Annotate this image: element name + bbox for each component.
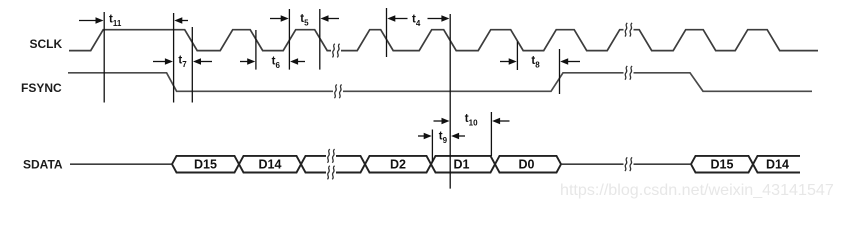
annotation vertical line L12 (t10 right): [490, 112, 492, 156]
t6 arrows: [240, 61, 249, 63]
svg-text:D14: D14: [766, 158, 789, 172]
svg-text:D1: D1: [454, 158, 470, 172]
break on bus top edge: [326, 149, 336, 163]
annotation vertical line L9 (t8 left): [516, 42, 518, 71]
svg-text:t4: t4: [412, 14, 421, 29]
annotation vertical line L6 (t5 right): [319, 9, 321, 70]
svg-text:SCLK: SCLK: [30, 37, 63, 51]
t7 arrows: [153, 61, 167, 63]
svg-text:D14: D14: [259, 158, 282, 172]
t5 arrows: [270, 18, 282, 20]
break on FSYNC low: [333, 85, 343, 99]
wire SDATA lead-in: [70, 163, 172, 165]
svg-text:FSYNC: FSYNC: [21, 81, 62, 95]
svg-text:t5: t5: [300, 13, 309, 28]
svg-text:t8: t8: [531, 55, 540, 70]
t8 arrows: [500, 61, 511, 63]
break on bus bottom edge: [326, 166, 336, 180]
annotation vertical line L5 (t6 right / t5 left): [288, 9, 290, 70]
svg-text:D15: D15: [711, 158, 734, 172]
svg-text:SDATA: SDATA: [23, 157, 63, 171]
t9 arrows: [418, 135, 426, 137]
wire FSYNC waveform: [68, 73, 812, 92]
SDATA bus group 1 (D15 D14 break D2 D1 D0): [172, 156, 561, 173]
break on FSYNC high: [624, 66, 634, 80]
svg-text:D0: D0: [519, 158, 535, 172]
wire SDATA between D0 and second D15: [561, 163, 691, 165]
SDATA bus group 2 (D15 D14 open ended): [691, 156, 800, 173]
t4 double arrow: [387, 15, 395, 21]
annotation vertical line L2 (t11 right / FSYNC fall): [173, 13, 175, 103]
annotation vertical line L1 (t11 left / SCLK rise): [103, 12, 105, 103]
wire SCLK waveform: [69, 30, 818, 51]
annotation vertical line L8 (t4 right, tall through SDATA): [449, 14, 451, 189]
t11 arrows: [79, 20, 97, 22]
svg-text:t10: t10: [465, 113, 478, 128]
svg-text:t11: t11: [109, 14, 122, 29]
svg-text:t9: t9: [439, 131, 448, 146]
annotation vertical line L10 (t8 right / FSYNC rise): [559, 49, 561, 94]
svg-text:D2: D2: [390, 158, 406, 172]
annotation vertical line L3 (t7 right / SCLK fall): [191, 27, 193, 103]
break on SCLK low: [331, 44, 341, 58]
break on SCLK high: [624, 23, 634, 37]
svg-text:https://blog.csdn.net/weixin_4: https://blog.csdn.net/weixin_43141547: [560, 181, 834, 199]
t10 arrows: [434, 120, 444, 122]
annotation vertical line L4 (t6 left): [255, 30, 257, 70]
svg-text:t6: t6: [272, 56, 281, 71]
svg-text:t7: t7: [178, 55, 187, 70]
annotation vertical line L7 (t4 left): [386, 8, 388, 57]
svg-text:D15: D15: [194, 158, 217, 172]
annotation vertical line L11 (t9 left): [431, 130, 433, 163]
break on SDATA mid line: [624, 157, 634, 171]
